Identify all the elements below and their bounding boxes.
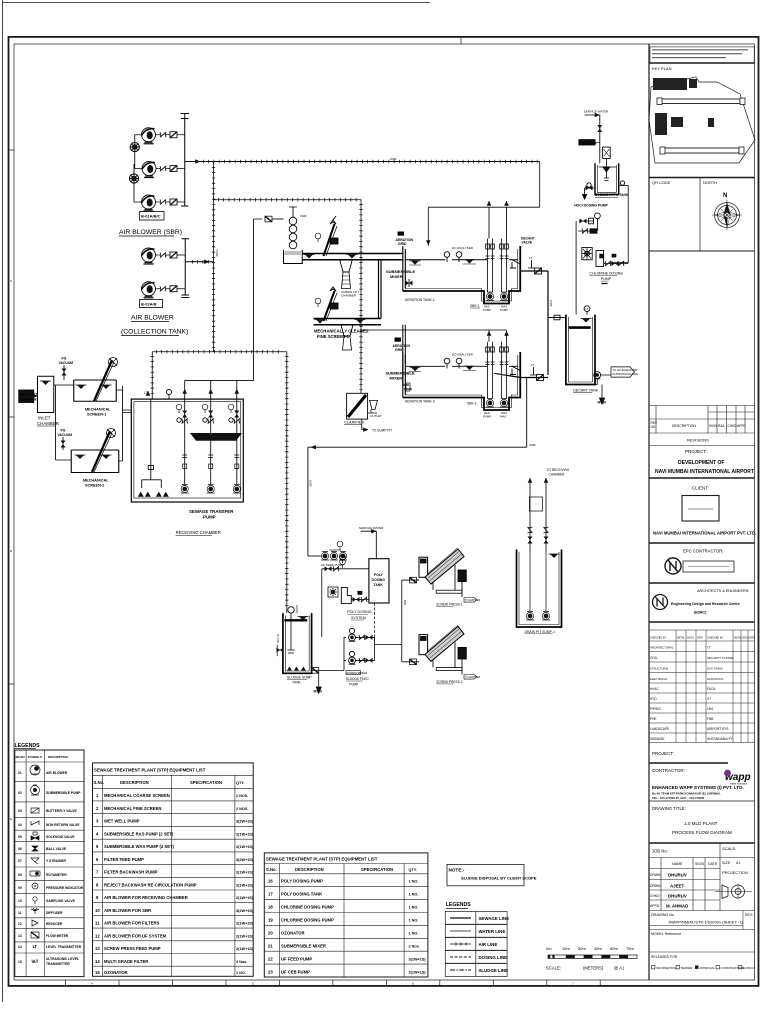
svg-text:SUBMERSIBLE MIXER: SUBMERSIBLE MIXER	[281, 944, 326, 949]
svg-text:CHAMBER: CHAMBER	[341, 294, 357, 298]
svg-text:NORTH: NORTH	[703, 180, 717, 185]
basin2 feed drop	[403, 325, 406, 385]
sludge sump tank	[283, 613, 312, 673]
VSD unit 2	[129, 174, 138, 183]
svg-text:BUTTERFLY VALVE: BUTTERFLY VALVE	[46, 809, 77, 813]
equipment table 1	[93, 763, 254, 976]
svg-text:REDUCER: REDUCER	[46, 922, 63, 926]
svg-text:ROTAMETER: ROTAMETER	[46, 873, 67, 877]
water marks basin1	[410, 261, 421, 265]
riser unions	[182, 455, 239, 458]
svg-text:1 NO.: 1 NO.	[409, 880, 419, 884]
svg-text:22: 22	[268, 957, 273, 962]
svg-text:AIR BLOWER FOR SBR: AIR BLOWER FOR SBR	[104, 908, 151, 913]
screw press 1	[419, 548, 480, 607]
svg-text:GRID: GRID	[398, 242, 407, 246]
svg-text:TO HOPPER: TO HOPPER	[465, 675, 480, 679]
svg-text:NO: NO	[651, 425, 656, 429]
svg-text:N: N	[723, 193, 727, 199]
scale bar	[546, 946, 637, 971]
svg-text:SIZE:: SIZE:	[722, 861, 731, 865]
hypo tank left outlet + valve	[585, 188, 595, 195]
svg-text:PROJECT:: PROJECT:	[652, 751, 674, 756]
flow meter wet well line	[265, 216, 272, 222]
wet well discharge header	[185, 219, 262, 380]
sodium hypo tank	[595, 163, 619, 194]
svg-text:B-02A/B: B-02A/B	[141, 301, 157, 306]
svg-text:SECURITY SYSTEM: SECURITY SYSTEM	[707, 656, 734, 660]
svg-text:45m: 45m	[594, 946, 602, 951]
svg-text:1 NO.: 1 NO.	[236, 971, 246, 975]
svg-text:AIR BLOWER: AIR BLOWER	[131, 315, 174, 322]
drain pit risers	[530, 478, 546, 552]
job no / scale row	[719, 843, 721, 858]
svg-text:2 Nos.: 2 Nos.	[409, 945, 420, 949]
svg-text:SPECIFICATION: SPECIFICATION	[361, 867, 393, 872]
label box blowers collection	[140, 300, 163, 308]
VSD unit 1	[130, 142, 139, 151]
svg-text:WAS: WAS	[500, 414, 506, 418]
svg-text:SBR-2: SBR-2	[467, 402, 477, 406]
svg-text:TEL:- 044-474000-45, FAX :- 04: TEL:- 044-474000-45, FAX :- 044-474000	[652, 796, 705, 800]
svg-text:15: 15	[18, 960, 22, 964]
svg-text:23: 23	[268, 970, 273, 975]
svg-text:LEGENDS: LEGENDS	[446, 902, 472, 908]
basin1 RAS/WAS pipe cluster	[486, 239, 509, 293]
svg-text:1 NO.: 1 NO.	[409, 893, 419, 897]
svg-text:ARCHITECTS & ENGINEERS:: ARCHITECTS & ENGINEERS:	[697, 589, 749, 593]
drawing number block	[649, 929, 755, 931]
svg-text:ULTRASONIC LEVEL: ULTRASONIC LEVEL	[46, 957, 79, 961]
svg-text:21: 21	[268, 944, 273, 949]
svg-text:14: 14	[18, 945, 22, 949]
svg-text:FINE SCREEN-1: FINE SCREEN-1	[317, 334, 350, 339]
dosing valves bottom	[604, 263, 629, 265]
svg-text:09: 09	[18, 886, 22, 890]
released for block: checkboxes	[652, 966, 742, 969]
drain pit pumps	[526, 612, 534, 621]
svg-text:CHKD: CHKD	[728, 424, 738, 428]
svg-text:LEVEL TRANSMITTER: LEVEL TRANSMITTER	[46, 945, 82, 949]
wire blower2 discharges	[156, 255, 186, 289]
svg-text:NON RETURN VALVE: NON RETURN VALVE	[46, 823, 80, 827]
svg-text:MODEL Reference: MODEL Reference	[651, 932, 681, 936]
mechanical coarse screen 1	[74, 358, 118, 417]
label screw press feed pump	[346, 670, 360, 674]
svg-text:CHLORINE DOSING PUMP: CHLORINE DOSING PUMP	[281, 905, 334, 910]
svg-text:SUBMERSIBLE RAS PUMP (2 SET): SUBMERSIBLE RAS PUMP (2 SET)	[104, 832, 174, 837]
key plan box	[649, 177, 755, 179]
svg-text:PUMP: PUMP	[601, 277, 612, 281]
svg-text:AIR BLOWER FOR FILTERS: AIR BLOWER FOR FILTERS	[104, 921, 159, 926]
dosing line to decant tank	[575, 231, 577, 315]
LT decant tank	[584, 306, 590, 312]
svg-text:DSGN: DSGN	[687, 638, 694, 640]
svg-text:SEWAGE TRANSFER: SEWAGE TRANSFER	[189, 509, 234, 514]
flow meter sludge	[312, 668, 319, 674]
svg-text:BALL VALVE: BALL VALVE	[46, 847, 67, 851]
sludge discharge manifold	[375, 580, 402, 662]
svg-text:SOLENOID VALVE: SOLENOID VALVE	[46, 835, 75, 839]
DO analyser basin1	[444, 252, 450, 258]
title block texts	[651, 66, 757, 615]
svg-text:PUMP: PUMP	[500, 308, 508, 312]
north arrow	[712, 200, 742, 230]
svg-text:S.No.: S.No.	[266, 867, 277, 872]
svg-text:DRAWING No.: DRAWING No.	[651, 913, 675, 917]
svg-text:DRWN: DRWN	[650, 873, 661, 877]
SBR basin 1	[403, 246, 520, 304]
svg-text:PRESSURE INDICATOR: PRESSURE INDICATOR	[46, 886, 84, 890]
svg-text:SCALE:: SCALE:	[546, 966, 561, 971]
water marks basin2	[410, 367, 421, 371]
svg-text:2 NOS.: 2 NOS.	[236, 794, 248, 798]
frame ruler ticks bottom	[9, 37, 601, 986]
decanter label basin1	[521, 237, 535, 245]
svg-text:QTY.: QTY.	[409, 868, 417, 872]
gate valve G2	[170, 166, 177, 172]
splitter drop channel	[379, 260, 382, 319]
svg-text:13: 13	[18, 934, 22, 938]
clarifier sludge cone	[368, 400, 378, 413]
svg-text:FILTER FEED PUMP: FILTER FEED PUMP	[104, 857, 144, 862]
svg-text:Y STRAINER: Y STRAINER	[46, 859, 67, 863]
RAS WAS pumps basin2	[486, 399, 494, 408]
svg-text:UF CEB PUMP: UF CEB PUMP	[281, 970, 310, 975]
svg-text:DIFFUSER: DIFFUSER	[46, 911, 63, 915]
legend symbols	[30, 765, 40, 963]
svg-text:OUTLET: OUTLET	[370, 414, 382, 418]
svg-text:NAVI MUMBAI INTERNATIONAL AIRP: NAVI MUMBAI INTERNATIONAL AIRPORT PVT. L…	[653, 531, 756, 536]
svg-text:150Ø: 150Ø	[300, 214, 306, 218]
svg-text:(EDRC): (EDRC)	[694, 611, 706, 615]
fine screen channel 1	[302, 254, 403, 260]
svg-text:SEWAGE LINE: SEWAGE LINE	[479, 916, 510, 921]
clarifier	[344, 393, 367, 424]
svg-text:04: 04	[18, 823, 22, 827]
air blower B-02A	[142, 248, 156, 264]
svg-text:R&A: R&A	[718, 424, 725, 428]
PG aeration label basin1	[396, 232, 414, 247]
MSW arrow sludge	[318, 673, 320, 687]
check valve V3	[160, 200, 166, 205]
svg-text:15m: 15m	[562, 946, 570, 951]
svg-text:SUSTAINABILITY: SUSTAINABILITY	[707, 737, 733, 741]
discipline table texts	[650, 637, 755, 742]
svg-text:1 NO.: 1 NO.	[409, 919, 419, 923]
svg-text:2(1W+1S): 2(1W+1S)	[236, 871, 254, 875]
DO analyser basin2	[444, 358, 450, 364]
wire blower discharges	[156, 135, 185, 202]
screw press 1 feed line	[402, 579, 419, 581]
svg-text:CONTRACTOR:: CONTRACTOR:	[652, 768, 685, 773]
svg-text:19: 19	[268, 918, 273, 923]
svg-text:SLUDGE FEED: SLUDGE FEED	[346, 677, 369, 681]
svg-text:DESCRIPTION: DESCRIPTION	[120, 780, 149, 785]
svg-text:WATER LINE: WATER LINE	[479, 929, 506, 934]
svg-text:I.T.: I.T.	[707, 646, 711, 650]
svg-text:TENDER: TENDER	[681, 966, 693, 970]
svg-text:DECANT TANK: DECANT TANK	[573, 389, 599, 393]
air blower B-01C	[142, 195, 156, 211]
air line filters branch	[214, 200, 362, 394]
wire inlet to screens	[54, 385, 74, 460]
svg-text:07: 07	[18, 859, 22, 863]
svg-text:PHE: PHE	[650, 717, 657, 721]
svg-text:VALVE: VALVE	[522, 241, 533, 245]
svg-text:AIR BLOWER: AIR BLOWER	[46, 771, 68, 775]
line legends	[445, 902, 509, 977]
svg-text:08: 08	[18, 873, 22, 877]
gate valve G1	[170, 132, 177, 138]
svg-text:POLY DOSING: POLY DOSING	[347, 610, 372, 614]
svg-text:SIGN: SIGN	[695, 862, 704, 866]
riser valve cluster 3	[228, 404, 240, 423]
svg-text:CLIENT:: CLIENT:	[692, 486, 709, 491]
svg-text:2(1W+1S): 2(1W+1S)	[236, 845, 254, 849]
svg-text:LEGENDS: LEGENDS	[15, 743, 41, 749]
name table	[649, 858, 755, 911]
svg-text:INLET: INLET	[38, 416, 51, 421]
svg-text:SEWAGE TREATMENT PLANT (STP) E: SEWAGE TREATMENT PLANT (STP) EQUIPMENT L…	[94, 768, 206, 773]
svg-text:QTY.: QTY.	[236, 781, 244, 785]
decanter basin1	[510, 260, 520, 268]
wet well pump 1	[181, 485, 189, 494]
svg-text:POLY: POLY	[374, 573, 384, 577]
svg-text:SODIUM HYPO TANK: SODIUM HYPO TANK	[595, 193, 629, 197]
discipline check table	[649, 630, 755, 743]
svg-text:DEVELOPMENT OF: DEVELOPMENT OF	[678, 460, 724, 466]
svg-text:No.4/1 TEAM STP PARK KONNAGAR: No.4/1 TEAM STP PARK KONNAGAR (E), CHENN…	[652, 792, 721, 796]
clarifier drain line	[362, 419, 368, 430]
svg-text:SCREW PRESS FEED PUMP: SCREW PRESS FEED PUMP	[104, 946, 161, 951]
svg-text:100Ø: 100Ø	[309, 480, 313, 486]
basin2 RAS/WAS pipe cluster	[486, 342, 509, 399]
project row	[649, 762, 728, 764]
model reference block	[649, 951, 755, 953]
decanter basin2	[510, 366, 520, 374]
svg-text:13: 13	[95, 946, 100, 951]
svg-text:3 Nos.: 3 Nos.	[236, 960, 247, 964]
project block	[649, 477, 755, 479]
svg-text:30m: 30m	[578, 946, 586, 951]
svg-text:2(1W+1S): 2(1W+1S)	[236, 896, 254, 900]
svg-text:AERATION TANK-2: AERATION TANK-2	[405, 400, 435, 404]
svg-text:CHECKED BY: CHECKED BY	[650, 637, 667, 640]
basin1 air risers	[489, 207, 507, 238]
svg-text:SCALE:: SCALE:	[722, 846, 736, 851]
mechanical coarse screen 2	[71, 429, 119, 488]
mechanically cleaned fine screen 2	[315, 287, 338, 321]
svg-text:HYD: HYD	[650, 697, 657, 701]
svg-text:CHKD: CHKD	[650, 894, 660, 898]
svg-text:12: 12	[95, 934, 100, 939]
svg-text:M. AHMAD: M. AHMAD	[666, 904, 688, 909]
svg-text:SIGNAGE: SIGNAGE	[650, 737, 665, 741]
chlorine dosing system	[574, 110, 629, 315]
svg-text:(COLLECTION TANK): (COLLECTION TANK)	[121, 329, 188, 336]
projection symbol	[715, 884, 752, 900]
svg-text:PROJECTION: PROJECTION	[722, 870, 748, 875]
svg-text:REV:: REV:	[745, 913, 753, 917]
svg-text:SYSTEM: SYSTEM	[351, 616, 366, 620]
poly valve train	[322, 568, 369, 570]
EPC contractor block : L&T logo	[665, 558, 681, 574]
rising main mixer stack	[289, 207, 297, 249]
title block divider	[648, 44, 650, 980]
svg-text:PUMP DISCHARGE: PUMP DISCHARGE	[613, 372, 639, 376]
svg-text:ENHANCED WAPP SYSTEMS (I) PVT.: ENHANCED WAPP SYSTEMS (I) PVT. LTD.	[652, 785, 744, 790]
svg-text:SYMBOLS: SYMBOLS	[28, 755, 42, 759]
PI wet well	[166, 389, 171, 394]
svg-text:TO SUMP PIT: TO SUMP PIT	[372, 428, 392, 432]
svg-text:PUMP: PUMP	[483, 308, 491, 312]
svg-text:3(2W+1S): 3(2W+1S)	[236, 858, 254, 862]
drawing title block	[649, 842, 755, 844]
svg-text:16: 16	[268, 879, 273, 884]
svg-text:POLY DOSING PUMP: POLY DOSING PUMP	[281, 879, 323, 884]
sodium hypo label	[579, 140, 595, 145]
svg-text:SR.NO: SR.NO	[16, 755, 26, 759]
svg-text:RECEIVING CHAMBER: RECEIVING CHAMBER	[176, 530, 221, 535]
decant line basin1	[520, 271, 548, 375]
check valve V4	[160, 253, 166, 258]
svg-text:ACOUSTICS: ACOUSTICS	[707, 677, 723, 681]
svg-text:MIXER: MIXER	[390, 375, 403, 380]
svg-text:MULTI GRADE FILTER: MULTI GRADE FILTER	[104, 959, 148, 964]
svg-text:NAVI MUMBAI INTERNATIONAL AIRP: NAVI MUMBAI INTERNATIONAL AIRPORT	[655, 469, 754, 475]
svg-text:DATE: DATE	[749, 637, 755, 640]
svg-text:01: 01	[18, 771, 22, 775]
svg-text:CHLORINE DOSING PUMP: CHLORINE DOSING PUMP	[281, 918, 334, 923]
svg-text:MSW: MSW	[314, 690, 323, 694]
svg-text:AERATION TANK-1: AERATION TANK-1	[405, 298, 435, 302]
svg-text:PG: PG	[62, 357, 67, 361]
svg-text:ARCHITECTURAL: ARCHITECTURAL	[650, 646, 674, 650]
MSW arrow	[601, 385, 603, 399]
basin1 wall valve	[406, 281, 413, 286]
svg-text:QR CODE: QR CODE	[652, 180, 671, 185]
svg-text:DIGI TWINS: DIGI TWINS	[707, 667, 723, 671]
sludge feed pump 2	[344, 651, 375, 664]
svg-text:2 NOS.: 2 NOS.	[236, 807, 248, 811]
svg-text:EPC CONTRACTOR:: EPC CONTRACTOR:	[683, 549, 723, 554]
screening compactor 2	[341, 325, 353, 350]
svg-text:CHLORINE DOSING: CHLORINE DOSING	[589, 271, 623, 275]
svg-text:LT: LT	[586, 307, 589, 311]
svg-text:PROCESS FLOW DIAGRAM: PROCESS FLOW DIAGRAM	[672, 830, 732, 835]
svg-text:CIVIL: CIVIL	[650, 656, 658, 660]
svg-text:LT: LT	[529, 256, 532, 260]
svg-text:12: 12	[18, 922, 22, 926]
influent sewage flag	[19, 390, 34, 403]
dosing pump train	[576, 213, 600, 234]
wet well air manifold	[142, 399, 162, 488]
svg-text:PROJECT:: PROJECT:	[685, 449, 707, 454]
svg-text:LANDSCAPE: LANDSCAPE	[650, 727, 669, 731]
svg-text:SUBMERSIBLE WAS PUMP (2 SET): SUBMERSIBLE WAS PUMP (2 SET)	[104, 844, 175, 849]
svg-text:10: 10	[95, 908, 100, 913]
poly dosing system	[322, 526, 389, 645]
svg-text:S.No.: S.No.	[94, 780, 105, 785]
decant tank	[566, 315, 595, 385]
PG label	[612, 254, 616, 257]
hypo tank right outlet down	[611, 186, 628, 263]
svg-text:06: 06	[18, 847, 22, 851]
RAS WAS pumps basin1	[486, 292, 494, 301]
svg-text:SCREW PRESS-2: SCREW PRESS-2	[436, 680, 463, 684]
svg-text:INFORMATION: INFORMATION	[656, 966, 676, 970]
svg-text:2(1W+1S): 2(1W+1S)	[236, 947, 254, 951]
svg-text:DESCRIPTION: DESCRIPTION	[48, 755, 68, 759]
decant transfer to decant tank	[548, 317, 566, 319]
svg-text:TRANSMITTER: TRANSMITTER	[46, 962, 70, 966]
svg-text:NaOCl SOL: NaOCl SOL	[580, 141, 597, 145]
svg-text:17: 17	[268, 892, 273, 897]
wet well pump 3	[233, 485, 241, 494]
basin2 air feed	[361, 330, 507, 342]
air blower B-01B	[142, 162, 156, 178]
svg-text:PUMP: PUMP	[483, 414, 491, 418]
svg-text:VT: VT	[707, 697, 711, 701]
svg-text:2(1W+1S): 2(1W+1S)	[236, 884, 254, 888]
receiving chamber (wet well)	[131, 399, 243, 502]
air blower B-01A	[142, 128, 156, 144]
svg-text:RELEASED FOR: RELEASED FOR	[651, 955, 678, 959]
svg-text:SCREW PRESS: SCREW PRESS	[347, 671, 368, 675]
svg-text:MECHANICAL COARSE SCREEN: MECHANICAL COARSE SCREEN	[104, 793, 170, 798]
svg-text:AIRPORT SYS.: AIRPORT SYS.	[707, 727, 729, 731]
flow meter drain pit	[530, 497, 543, 511]
air line to receiving chamber horizontal	[152, 352, 287, 399]
disclaimer note box	[650, 47, 754, 63]
air blower B-02B	[142, 282, 156, 298]
svg-text:AS BUILT: AS BUILT	[743, 966, 756, 970]
svg-text:75m: 75m	[626, 946, 634, 951]
svg-text:2(1W+1S): 2(1W+1S)	[236, 833, 254, 837]
svg-text:DO ANALYSER: DO ANALYSER	[452, 353, 474, 357]
svg-text:WET WELL PUMP: WET WELL PUMP	[104, 819, 140, 824]
sludge suction line	[312, 637, 344, 670]
fine screen channel 2	[314, 319, 382, 325]
svg-text:MECHANICAL FINE SCREEN: MECHANICAL FINE SCREEN	[104, 806, 161, 811]
svg-text:200Ø: 200Ø	[390, 157, 396, 161]
svg-text:1 NO.: 1 NO.	[409, 906, 419, 910]
svg-text:DHURUV: DHURUV	[668, 873, 687, 878]
valve on service water drop	[597, 125, 602, 132]
qr code cell	[699, 178, 701, 252]
svg-text:SLUDGE DISPOSAL BY CLIENT SCOP: SLUDGE DISPOSAL BY CLIENT SCOPE	[461, 876, 537, 881]
svg-text:PUMP: PUMP	[203, 515, 216, 520]
svg-text:APPD: APPD	[737, 424, 746, 428]
poly line down to sludge line	[374, 603, 376, 645]
sludge sump mixer	[288, 607, 294, 613]
svg-text:GRID: GRID	[395, 348, 404, 352]
svg-text:JNAPP/NMIAL/STP-1/SD/001 (SHEE: JNAPP/NMIAL/STP-1/SD/001 (SHEET -1)	[668, 920, 744, 925]
gate valve G5	[170, 286, 177, 292]
svg-text:03: 03	[18, 809, 22, 813]
svg-text:STRUCTURAL: STRUCTURAL	[650, 667, 669, 671]
client block	[682, 496, 719, 522]
ozone column	[596, 250, 604, 266]
equipment table 2	[264, 853, 428, 977]
svg-text:CHAMBER: CHAMBER	[549, 472, 566, 476]
svg-text:20: 20	[268, 931, 273, 936]
svg-text:POLY DOSING TANK: POLY DOSING TANK	[281, 892, 322, 897]
riser valve cluster 1	[176, 404, 188, 423]
air line down to sludge sump	[286, 352, 288, 613]
svg-text:E: E	[10, 817, 12, 821]
